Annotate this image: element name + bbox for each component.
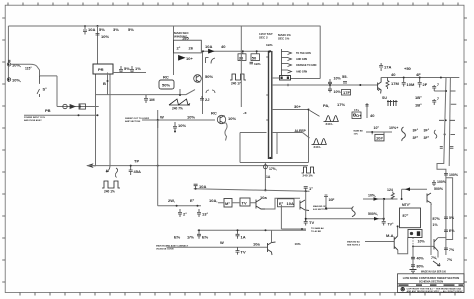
capacitor C32 [194, 184, 198, 189]
resistor R3 rounded box [159, 80, 174, 89]
capacitor C29 [444, 217, 448, 219]
wire Q9 base line [413, 245, 434, 247]
svg-text:RC: RC [163, 75, 169, 80]
junction [202, 50, 204, 52]
svg-text:100%: 100% [437, 180, 447, 184]
junction [445, 90, 447, 92]
svg-text:TO A2 BD: TO A2 BD [311, 230, 322, 233]
connector housing J2 [280, 76, 291, 81]
lower row wire [158, 205, 201, 207]
svg-text:SEC 2: SEC 2 [259, 36, 268, 40]
label 3F grid (C group values) [413, 129, 430, 141]
svg-text:3F°: 3F° [413, 136, 419, 140]
capacitor C27 [450, 147, 454, 149]
svg-text:100%: 100% [449, 173, 459, 177]
lower bus L4 [167, 246, 267, 248]
svg-text:TV: TV [309, 220, 314, 225]
junction [308, 109, 310, 111]
arrow on bus [209, 49, 214, 53]
svg-text:240 1%: 240 1% [303, 174, 314, 178]
capacitor C23 [418, 78, 422, 88]
svg-text:5%: 5% [99, 27, 105, 32]
svg-text:ALEEP: ALEEP [295, 129, 307, 133]
junction [305, 218, 307, 220]
wire right mid bus [272, 84, 378, 86]
lower mid bus1 [194, 189, 310, 192]
field row dark cells [399, 284, 464, 286]
capacitor C13 [119, 66, 123, 73]
capacitor C45 [250, 62, 254, 64]
svg-text:7%,: 7%, [431, 256, 437, 260]
svg-text:10%: 10% [187, 115, 195, 120]
junction [197, 205, 199, 207]
junction [383, 218, 385, 220]
junction [237, 229, 239, 231]
wire L5 to Q6 [281, 205, 306, 229]
svg-text:13°: 13° [202, 212, 208, 217]
svg-text:3F°: 3F° [424, 129, 430, 133]
svg-text:240 1%: 240 1% [104, 190, 115, 194]
svg-text:PB: PB [45, 108, 51, 113]
svg-text:3%: 3% [113, 27, 119, 32]
svg-text:1B%: 1B% [266, 43, 273, 47]
lower bus L3 [198, 229, 306, 231]
capacitor C31 [444, 248, 448, 250]
capacitor C10 pair [206, 58, 216, 64]
vertical link box to line [179, 89, 181, 95]
junction [264, 189, 266, 191]
junction [301, 228, 303, 230]
waveform W2 square pulse [102, 181, 120, 188]
relay K2 box [408, 230, 422, 238]
pickoff cap column [326, 197, 352, 209]
svg-text:10%: 10% [334, 90, 342, 94]
wire stub C24 to rail [434, 90, 446, 92]
capacitor C26 [440, 147, 443, 149]
ground [410, 270, 417, 273]
svg-text:17%: 17% [337, 102, 345, 107]
svg-text:TO THE GRN: TO THE GRN [296, 52, 311, 55]
wire pickoff from enclosure [264, 163, 266, 191]
svg-text:POWER INPUT 115V: POWER INPUT 115V [24, 117, 46, 119]
svg-text:10A: 10A [88, 27, 95, 32]
svg-text:RC: RC [211, 111, 217, 116]
rail dash A [451, 103, 457, 105]
capacitor C19 [328, 79, 332, 84]
svg-text:MTV°: MTV° [402, 203, 411, 207]
svg-text:55.: 55. [342, 74, 348, 79]
svg-text:240 L: 240 L [326, 122, 334, 126]
svg-text:5%: 5% [124, 66, 130, 71]
junction [305, 190, 307, 192]
svg-text:10%: 10% [228, 116, 236, 121]
transformer T2 secondary lines top-mid [173, 26, 175, 75]
junction [84, 25, 86, 27]
wire to fuse row [57, 76, 99, 107]
svg-text:115°: 115° [25, 66, 32, 70]
capacitor C14 [130, 66, 134, 73]
svg-text:M°: M° [225, 201, 230, 206]
svg-text:50%: 50% [205, 74, 213, 79]
svg-text:ORANGE TO GRN: ORANGE TO GRN [296, 64, 317, 67]
wire upper mid bus [201, 51, 268, 114]
svg-text:1A: 1A [266, 175, 271, 179]
capacitor C15 [144, 95, 148, 103]
jack J3 circle [7, 60, 10, 66]
svg-text:VIA EDGE CONN: VIA EDGE CONN [156, 247, 174, 250]
delay line T3 vertical bars [269, 51, 272, 159]
svg-text:10%: 10% [178, 123, 186, 128]
svg-text:2F: 2F [423, 82, 428, 87]
arrow bottom right [433, 261, 440, 266]
wire top supply bus [8, 26, 320, 58]
switch S1 [37, 76, 40, 97]
wire enclosure right edge [291, 26, 321, 79]
capacitor C43 [411, 265, 415, 267]
svg-text:3F°: 3F° [413, 129, 419, 133]
junction tick [287, 84, 289, 87]
wire line input [11, 64, 57, 76]
tick on rail [451, 133, 456, 135]
transistor Q9 [434, 238, 438, 251]
capacitor C46 [382, 219, 386, 226]
junction [176, 205, 178, 207]
capacitor C40 [432, 180, 436, 186]
T3 top terminal [268, 50, 270, 52]
arrow on bus3 [374, 217, 379, 221]
delay line taps [240, 110, 309, 163]
capacitor C9 boxed [251, 51, 260, 60]
svg-text:2W,: 2W, [168, 198, 175, 203]
wire transistor Q8 collector down [430, 203, 432, 255]
svg-text:5%: 5% [449, 216, 455, 220]
svg-text:3F°: 3F° [424, 136, 430, 140]
svg-text:10%: 10% [295, 242, 301, 246]
svg-text:PR: PR [98, 67, 104, 72]
svg-text:O+: O+ [356, 113, 362, 118]
arrow on bus2 [374, 197, 379, 201]
mid right bus2 [363, 198, 398, 200]
resistor network A1 box [174, 40, 202, 53]
svg-text:SEC 1%: SEC 1% [278, 37, 290, 41]
border tick marks top [8, 3, 458, 6]
wire upper branch [402, 189, 427, 199]
capacitor C17 boxed [352, 112, 361, 119]
wire Q7 collector bus [381, 77, 459, 79]
svg-text:MAIN BD A6: MAIN BD A6 [347, 240, 360, 243]
svg-text:10%: 10% [418, 240, 426, 244]
svg-text:500%: 500% [434, 187, 444, 191]
svg-text:240 L: 240 L [314, 145, 322, 149]
wire to transformer primary [97, 26, 99, 64]
svg-text:17M: 17M [391, 81, 399, 86]
coil L3 squiggle [352, 207, 355, 217]
wire lower power line [24, 114, 98, 116]
capacitor C39 [236, 247, 240, 254]
svg-text:TP: TP [134, 159, 139, 164]
capacitor C1 on bus [83, 26, 87, 35]
capacitor C34 [178, 209, 182, 217]
wire vertical left join [107, 73, 109, 95]
junction [383, 198, 385, 200]
junction [445, 119, 447, 121]
junction [401, 198, 403, 200]
box U2 [240, 198, 250, 206]
junction [8, 79, 10, 81]
box U1 [224, 199, 232, 208]
svg-text:E%: E% [449, 229, 455, 233]
svg-text:MAIN BD ON: MAIN BD ON [313, 205, 327, 208]
svg-text:10%: 10% [354, 133, 358, 135]
svg-text:17F: 17F [343, 90, 350, 95]
junction [403, 77, 405, 79]
title block frame [398, 274, 465, 293]
svg-text:-x: -x [243, 110, 247, 115]
capacitor C2 [96, 34, 100, 36]
svg-text:10A,: 10A, [209, 198, 217, 203]
svg-text:1B°: 1B° [415, 95, 422, 100]
capacitor C12 [200, 96, 204, 100]
transistor Q6 [394, 236, 398, 250]
svg-text:AND FUSE ASSY: AND FUSE ASSY [24, 119, 42, 122]
wire vertical Q4 down [305, 191, 307, 222]
svg-text:50: 50 [252, 55, 257, 60]
switch S2 [115, 168, 117, 178]
junction [256, 50, 258, 52]
svg-text:40: 40 [221, 44, 226, 49]
junction [371, 131, 373, 133]
wire dashed to Q2 [142, 119, 215, 121]
wire left mid bus [96, 73, 196, 95]
wire Q2 emitter drop [225, 123, 227, 141]
border tick marks left [2, 18, 5, 282]
wire enclosure left edge [240, 26, 242, 107]
junction [79, 106, 81, 108]
coil L1 squiggle [402, 127, 406, 141]
wire Q6 emitter loop [398, 238, 408, 254]
svg-text:17s: 17s [354, 108, 359, 112]
svg-text:W: W [220, 240, 224, 245]
connector J1 vertical [282, 49, 292, 75]
svg-text:TV°: TV° [388, 222, 394, 226]
svg-text:E7%: E7% [433, 217, 441, 221]
stub down from T3 left [276, 133, 278, 155]
wire mid horizontal TP line [87, 165, 308, 167]
svg-text:10°: 10° [374, 126, 380, 130]
svg-text:240 7%: 240 7% [172, 107, 183, 111]
wire Q6 collector up [397, 226, 399, 236]
svg-text:SEE NOTE 4: SEE NOTE 4 [347, 243, 361, 246]
junction [242, 50, 244, 52]
waveform W6 square pulses [302, 167, 316, 173]
junction [78, 114, 80, 116]
svg-text:30+: 30+ [294, 104, 301, 109]
svg-text:SCHEMA SECTION: SCHEMA SECTION [419, 279, 443, 283]
svg-text:PA,: PA, [323, 103, 329, 108]
wire to Q6 base [365, 241, 394, 243]
junction [444, 133, 446, 135]
junction [269, 50, 271, 52]
wire vertical stub [157, 120, 159, 128]
diagonal pointer [310, 110, 320, 116]
wire stub [366, 103, 368, 118]
svg-text:10%: 10% [334, 77, 342, 81]
svg-text:10%,: 10%, [12, 78, 21, 83]
transistor Q4 [300, 200, 309, 211]
svg-text:E7°: E7° [403, 214, 409, 218]
right rail vertical 2 [449, 78, 450, 167]
wave W5 humps mid [312, 139, 327, 145]
svg-text:E%: E% [202, 235, 209, 240]
junction [8, 64, 10, 66]
junction [325, 207, 327, 209]
transistor Q1 [194, 75, 202, 83]
svg-text:1B°: 1B° [415, 103, 422, 108]
svg-text:17%,: 17%, [269, 167, 277, 171]
wire through relay [366, 132, 392, 134]
wire vertical left-mid pair B [109, 74, 111, 166]
wire vertical center-left [157, 110, 159, 206]
svg-text:1°: 1° [309, 186, 313, 191]
rail dash B [439, 119, 455, 121]
pin header [387, 100, 398, 106]
svg-text:+50: +50 [404, 66, 412, 71]
diode CR2 arrow [179, 56, 185, 61]
junction [419, 77, 421, 79]
junction [179, 94, 181, 96]
resistor R5 [386, 78, 389, 90]
wire vertical left-mid pair A [93, 64, 113, 166]
transformer T1 primary box [93, 64, 113, 74]
capacitor C16 [173, 122, 177, 132]
svg-text:10+: 10+ [186, 56, 193, 61]
junction [198, 229, 200, 231]
capacitor C18 [365, 105, 368, 107]
capacitor C8 boxed [238, 51, 246, 60]
svg-text:1B%: 1B% [254, 62, 261, 66]
resistor R4 boxed [342, 90, 351, 96]
svg-text:7: 7 [437, 97, 439, 101]
svg-text:500%,: 500%, [368, 212, 378, 216]
svg-text:COPYRIGHT TEXT RE A1 — TEKTRO: COPYRIGHT TEXT RE A1 — TEKTRONIX MADE US… [407, 287, 462, 290]
svg-text:10A: 10A [205, 44, 212, 49]
capacitor pair right of 55 [343, 82, 347, 84]
junction [397, 225, 399, 227]
capacitor C24 [432, 85, 436, 91]
wire Q9 emitter [437, 251, 439, 258]
svg-text:W: W [160, 115, 164, 120]
svg-text:AND ANY REVISION 4530 SPEC — A: AND ANY REVISION 4530 SPEC — ALL RIGHTS … [407, 290, 463, 293]
resistor R6 [391, 192, 394, 200]
svg-text:SU: SU [382, 96, 387, 100]
wire rail bracket [446, 178, 453, 240]
capacitor C36 [304, 219, 308, 226]
relay dashed actuator [412, 238, 414, 247]
svg-text:TV: TV [242, 201, 247, 206]
svg-text:10%: 10% [101, 34, 109, 39]
waveform W1 sawtooth [169, 99, 190, 105]
wire Q9 collector [438, 237, 447, 239]
border tick marks right [464, 18, 467, 282]
svg-text:10A: 10A [287, 201, 294, 206]
capacitor C30 [444, 230, 448, 232]
svg-text:1A: 1A [241, 235, 246, 240]
svg-text:2J: 2J [205, 97, 209, 102]
svg-text:10a: 10a [253, 242, 260, 247]
border tick marks bottom [20, 293, 455, 296]
waveform W3 square pulse top [230, 74, 246, 80]
wire staircase [265, 198, 300, 209]
junction [157, 165, 159, 167]
box U3 [400, 208, 421, 228]
T3 winding stubs [266, 57, 268, 120]
svg-text:M-A,: M-A, [386, 233, 395, 238]
arrow into wire bottom [88, 164, 96, 167]
svg-text:7%: 7% [449, 248, 455, 252]
junction [265, 229, 267, 231]
ground branch wire [412, 246, 414, 269]
junction [440, 77, 442, 79]
capacitor C33 [304, 187, 308, 192]
svg-text:10a: 10a [260, 195, 267, 200]
resistor network A2 box [278, 199, 295, 207]
svg-text:10%+: 10%+ [389, 126, 398, 130]
svg-text:1%: 1% [433, 223, 439, 227]
svg-text:10#: 10# [376, 136, 383, 141]
waveform W4 humps [324, 116, 339, 122]
capacitor C22 [402, 78, 406, 87]
wire diag to W5 [303, 133, 310, 139]
junction mid [157, 119, 159, 121]
capacitor C47 [324, 195, 328, 197]
svg-text:2°: 2° [177, 46, 181, 51]
hook arrow [106, 166, 110, 172]
svg-text:7: 7 [437, 83, 439, 87]
junction [130, 165, 132, 167]
svg-text:40: 40 [391, 72, 396, 77]
svg-text:240 17: 240 17 [231, 82, 241, 86]
junction on bus [97, 25, 99, 27]
junction [107, 80, 109, 82]
junction [97, 114, 99, 116]
T3 bottom terminal [269, 157, 271, 159]
svg-text:S°: S° [43, 87, 48, 92]
junction [412, 245, 414, 247]
svg-text:17A: 17A [384, 65, 391, 70]
copyright mark [401, 288, 404, 291]
svg-text:MAIN BD: MAIN BD [354, 129, 364, 132]
svg-text:7%: 7% [447, 258, 453, 262]
transistor Q8 [427, 193, 431, 205]
capacitor C20 [328, 85, 332, 93]
capacitor C35 [197, 209, 201, 217]
svg-text:E°: E° [190, 198, 195, 203]
svg-text:2°: 2° [183, 212, 187, 217]
wire U1-U2 links [218, 202, 256, 204]
fuse F1 [63, 104, 75, 108]
svg-text:10F: 10F [329, 198, 335, 202]
arrow on upper branch [405, 187, 410, 191]
svg-text:MADE IN USA SER 100: MADE IN USA SER 100 [421, 271, 447, 274]
svg-text:40%: 40% [417, 257, 425, 261]
svg-text:TO MAIN A4: TO MAIN A4 [311, 227, 324, 230]
title block field row [398, 284, 465, 287]
mid right bus3 [306, 218, 384, 220]
svg-text:TV: TV [241, 250, 246, 255]
capacitor C38 [236, 230, 240, 239]
capacitor C37 [197, 230, 201, 239]
transistor Q3 [256, 199, 265, 209]
